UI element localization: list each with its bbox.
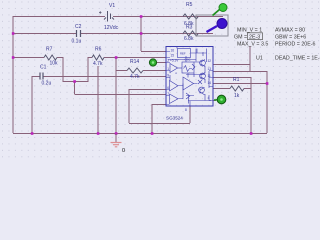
U1 internal transistor QB <box>200 73 206 79</box>
junction at (251,133) <box>250 132 253 135</box>
junction at (141,16) <box>140 15 143 18</box>
svg-text:2E-3: 2E-3 <box>249 35 260 41</box>
junction at (98,133) <box>97 132 100 135</box>
probe green marker mid <box>149 59 156 66</box>
probe blue V at R3 <box>207 19 228 33</box>
svg-text:DEAD_TIME = 1E-6: DEAD_TIME = 1E-6 <box>275 56 320 62</box>
svg-text:8: 8 <box>185 108 187 112</box>
wire marker stub y62 <box>153 62 166 64</box>
resistor R7 <box>44 55 57 60</box>
capacitor C1 <box>40 73 43 80</box>
svg-text:V1: V1 <box>109 3 115 9</box>
resistor R1 <box>230 86 244 91</box>
wire x98 down <box>97 66 99 133</box>
svg-text:REF: REF <box>180 52 186 56</box>
svg-text:0: 0 <box>122 148 125 154</box>
svg-text:2: 2 <box>167 59 169 63</box>
svg-text:4.7k: 4.7k <box>130 74 140 80</box>
svg-text:1: 1 <box>167 67 169 71</box>
U1 right pin stubs <box>190 71 213 107</box>
svg-text:MAX_V = 3.5: MAX_V = 3.5 <box>237 42 268 48</box>
U1 internal oscillator box <box>182 62 194 73</box>
capacitor C2 <box>77 30 81 37</box>
U1 pin numbers <box>167 49 211 113</box>
IC U1 SG3524 box <box>166 47 213 107</box>
junction at (74,81) <box>73 80 76 83</box>
junction at (13,57) <box>12 56 15 59</box>
U1 internal transistor QC <box>199 87 205 93</box>
resistor R6 <box>92 55 104 60</box>
U1 internal error amp <box>170 81 179 92</box>
wire top rail y16 <box>13 16 223 18</box>
svg-text:4: 4 <box>208 96 210 100</box>
wire marker stub y100 <box>213 100 216 102</box>
ground 0 <box>115 134 117 142</box>
svg-text:9: 9 <box>167 74 169 78</box>
svg-text:R3: R3 <box>186 25 193 31</box>
wire C1 left leg <box>32 76 40 133</box>
wire C1 row y76.5 to pin9 <box>43 76 167 78</box>
U1 internal REF regulator box <box>178 49 191 58</box>
svg-text:0.2u: 0.2u <box>42 81 52 87</box>
wire y83 right <box>213 83 267 85</box>
wire x116 down <box>115 57 117 133</box>
svg-text:C1: C1 <box>40 65 47 71</box>
wire y71 right <box>213 71 267 73</box>
svg-text:GM =: GM = <box>234 35 247 41</box>
svg-text:10k: 10k <box>50 61 59 67</box>
svg-text:11: 11 <box>208 74 212 78</box>
svg-text:R14: R14 <box>130 59 139 65</box>
svg-text:7: 7 <box>167 92 169 96</box>
selection box <box>196 15 228 36</box>
svg-text:PERIOD = 20E-6: PERIOD = 20E-6 <box>275 42 316 48</box>
svg-text:6.8k: 6.8k <box>184 36 194 42</box>
U1 internal op-amp <box>170 64 178 73</box>
resistor R5 <box>183 14 198 19</box>
resistor R14 <box>127 68 143 73</box>
svg-text:13: 13 <box>208 67 212 71</box>
wire R1 row y88 <box>213 88 251 90</box>
svg-text:R6: R6 <box>95 47 102 53</box>
wire pin3 leg <box>152 104 166 133</box>
wire V1 branch x141 <box>141 16 166 52</box>
junction at (116,133) <box>115 132 118 135</box>
U1 internal interconnect lines <box>168 47 211 104</box>
svg-text:C2: C2 <box>75 24 82 30</box>
wire rail y33 <box>13 33 213 35</box>
svg-text:16: 16 <box>171 49 175 53</box>
U1 internal comparator <box>183 77 194 90</box>
wire x63 down <box>62 57 64 82</box>
wire x129 vertical <box>129 89 190 124</box>
svg-text:U1: U1 <box>256 56 263 62</box>
svg-text:14: 14 <box>208 81 212 85</box>
junction at (32,133) <box>31 132 34 135</box>
wire x88 down <box>87 57 89 82</box>
svg-text:GBW = 3E+6: GBW = 3E+6 <box>275 35 306 41</box>
wire R14 row y70 <box>116 70 166 72</box>
svg-text:AVMAX = 80: AVMAX = 80 <box>275 28 305 34</box>
junction at (267,83) <box>266 82 269 85</box>
battery V1 <box>104 11 114 22</box>
junction at (116,57) <box>115 56 118 59</box>
resistor R3 <box>183 31 198 36</box>
svg-text:15: 15 <box>171 54 175 58</box>
wire stem from node 74.5 <box>75 82 167 95</box>
svg-text:SG3524: SG3524 <box>166 116 183 121</box>
probe green V at R5 <box>213 4 228 16</box>
wire y77.5 right <box>213 77 251 133</box>
wire bottom rail y133 <box>13 133 267 135</box>
IC internals <box>166 47 213 107</box>
U1 left pin stubs <box>166 52 170 105</box>
svg-text:0.1u: 0.1u <box>72 39 82 45</box>
svg-text:12: 12 <box>208 59 212 63</box>
svg-text:4.7k: 4.7k <box>93 61 103 67</box>
svg-text:1k: 1k <box>234 93 240 99</box>
junction at (152,133) <box>151 132 154 135</box>
junction at (13,33) <box>12 32 15 35</box>
param GM value edit box <box>248 33 263 40</box>
svg-text:12Vdc: 12Vdc <box>104 25 119 31</box>
wire pin12 y64 right <box>213 46 250 71</box>
U1 internal shutdown amp <box>170 94 179 104</box>
svg-text:6: 6 <box>167 86 169 90</box>
svg-text:R5: R5 <box>186 2 193 8</box>
svg-text:R7: R7 <box>46 47 53 53</box>
battery V1 plus mark <box>99 11 102 14</box>
U1 internal transistor QA <box>200 60 206 66</box>
wire left bus <box>12 16 14 133</box>
probe green marker right <box>214 95 226 104</box>
svg-text:+5.1V: +5.1V <box>170 59 179 63</box>
junction at (141,33) <box>140 32 143 35</box>
wire R7 row y57 <box>13 57 166 59</box>
wire y81.5 bar <box>63 81 88 83</box>
svg-text:OSC: OSC <box>185 58 191 62</box>
wire pin6 y89 <box>129 89 166 91</box>
wire x267 down <box>266 71 268 133</box>
svg-text:R1: R1 <box>233 77 240 83</box>
